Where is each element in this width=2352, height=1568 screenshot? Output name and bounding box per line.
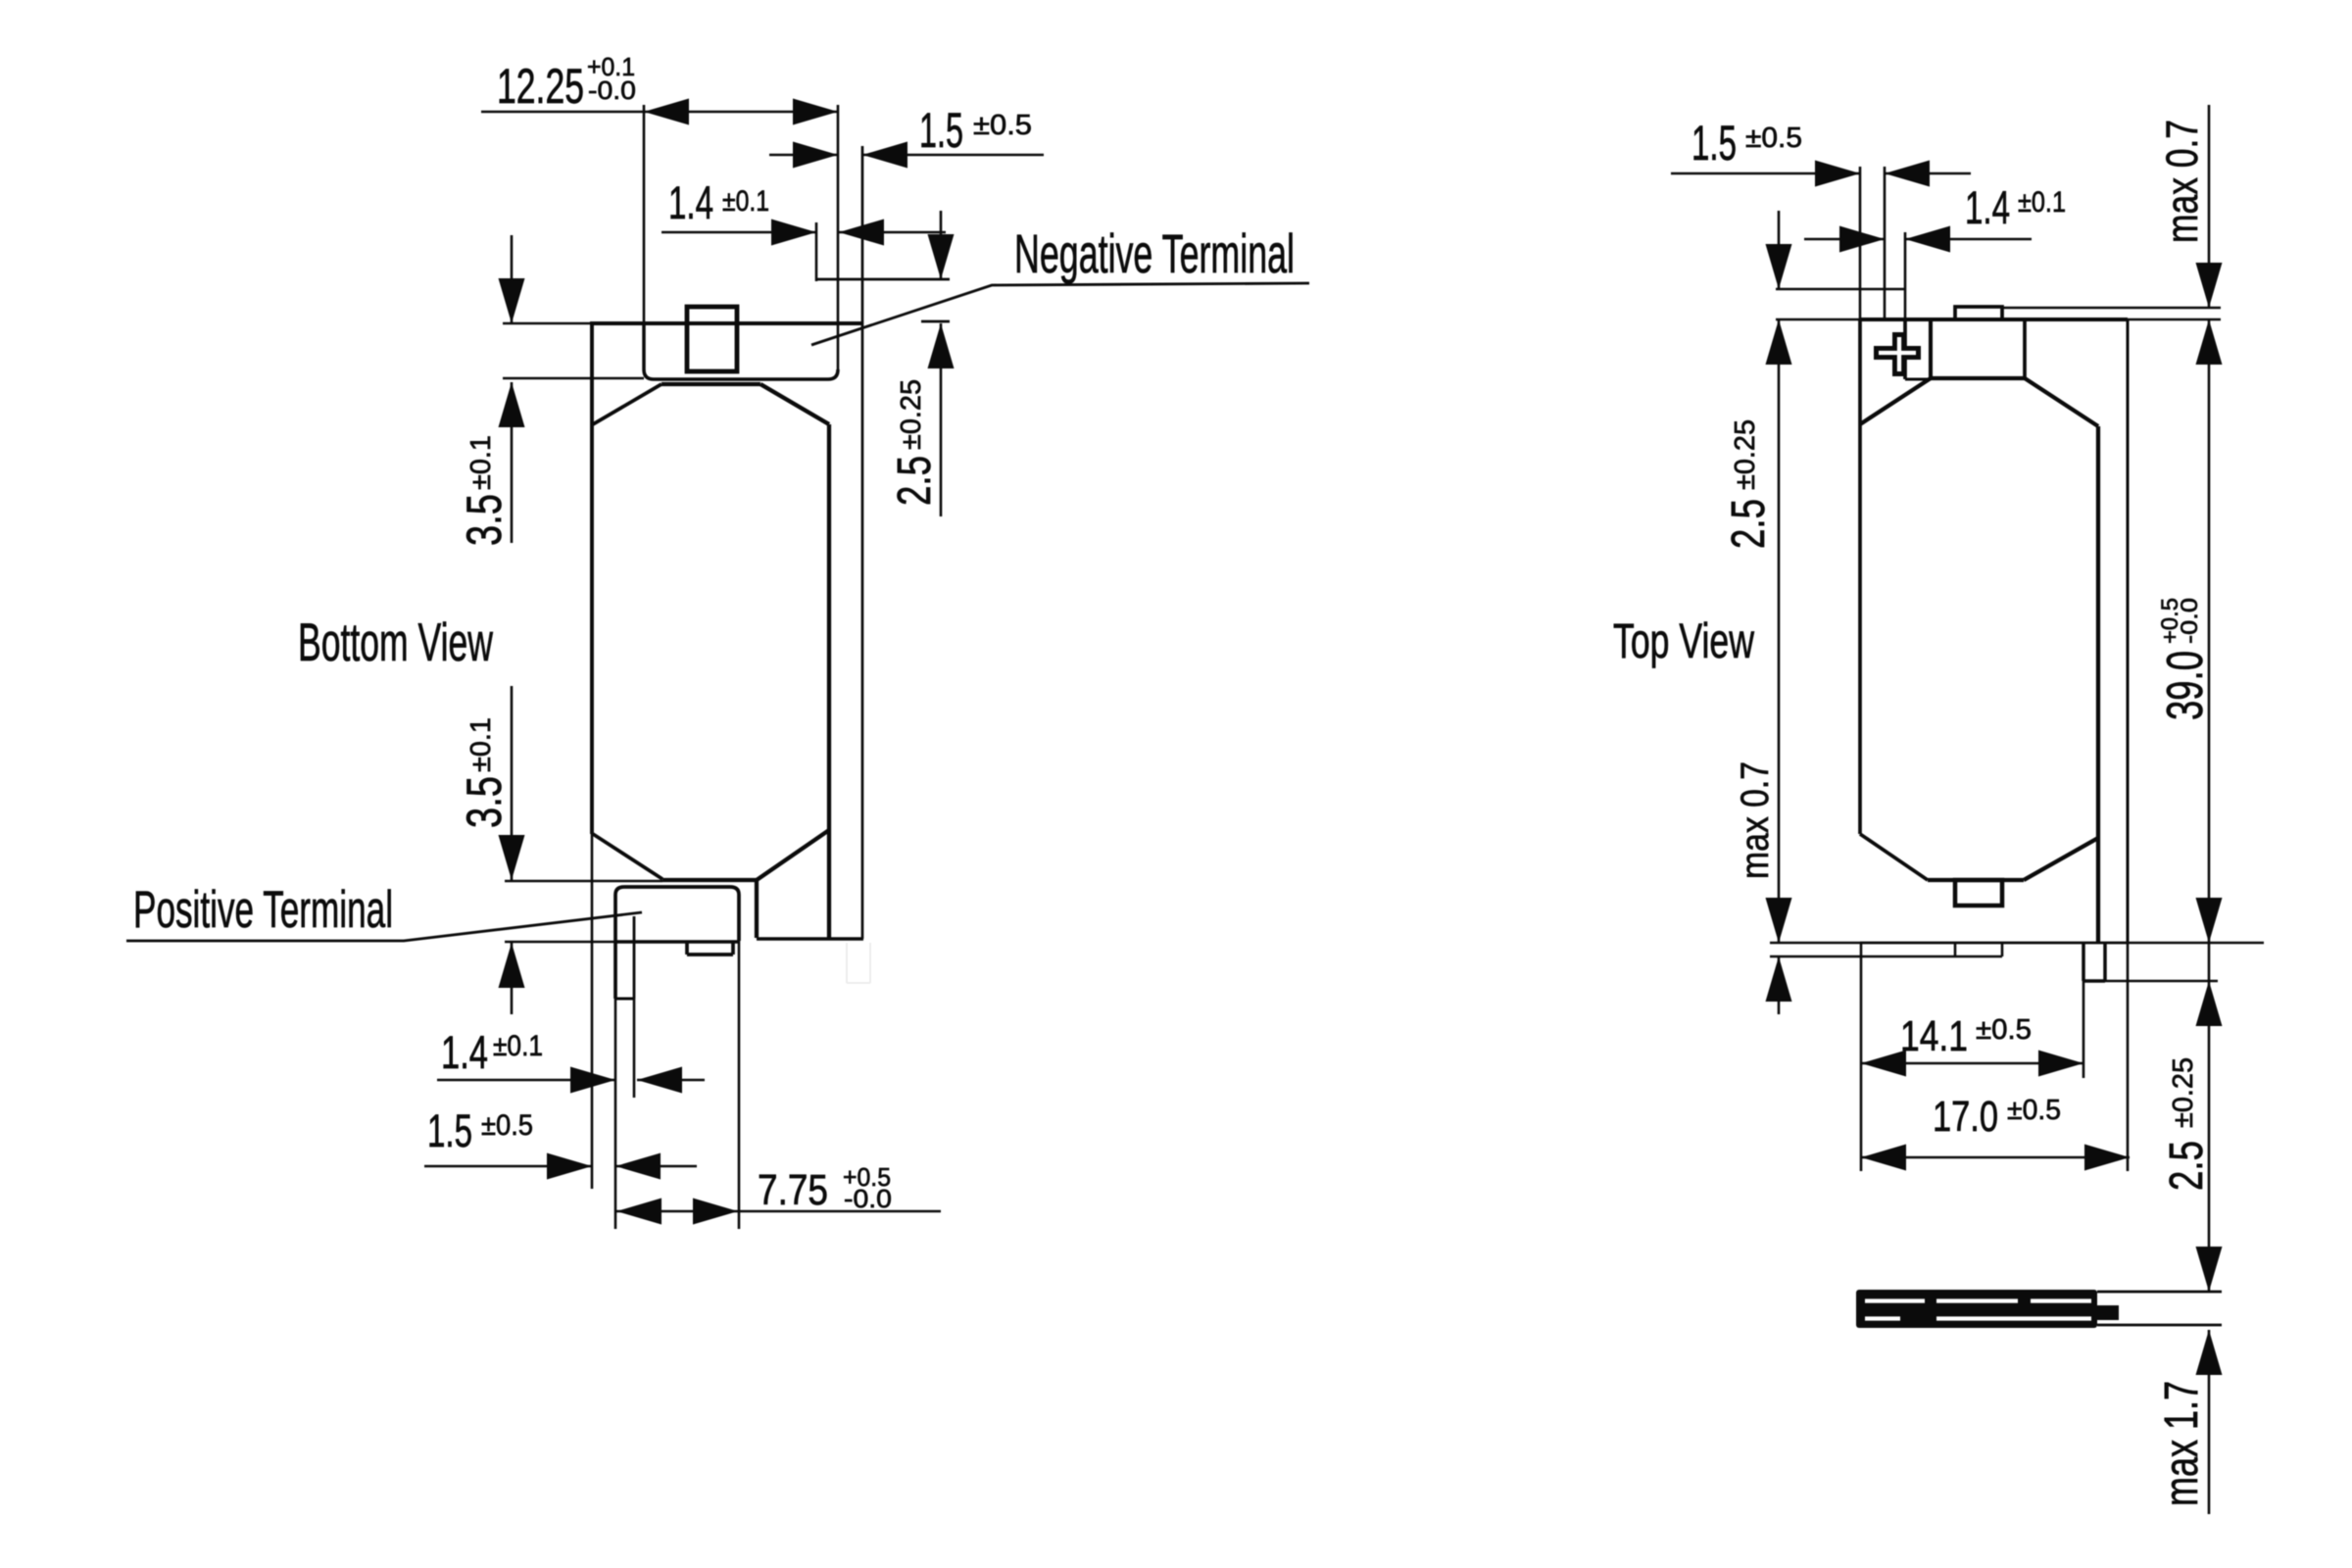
svg-text:max 0.7: max 0.7 xyxy=(1734,761,1777,879)
top edge right tick xyxy=(921,320,950,323)
17.0 arrows xyxy=(1861,1145,1906,1171)
body top-right chamfer xyxy=(2025,378,2098,426)
body top edge xyxy=(1931,376,2025,380)
dim 1.5 bottom lines xyxy=(424,1165,697,1168)
battery top edge xyxy=(1860,318,2128,321)
top cap right edge xyxy=(837,105,840,369)
dim 17.0 line xyxy=(1861,1156,2130,1159)
1.4 top arrows xyxy=(771,220,816,246)
extension line x647 lower xyxy=(633,999,636,1098)
2.5 left arrows xyxy=(928,234,955,279)
extension top edge right xyxy=(2128,318,2221,321)
svg-text:14.1: 14.1 xyxy=(1900,1012,1968,1060)
svg-text:1.4: 1.4 xyxy=(1965,181,2010,233)
svg-text:±0.1: ±0.1 xyxy=(722,185,769,218)
svg-text:2.5: 2.5 xyxy=(1723,499,1775,549)
extension top edge left xyxy=(1776,318,1860,321)
svg-text:max 1.7: max 1.7 xyxy=(2156,1381,2208,1506)
body bottom-left chamfer xyxy=(1860,834,1928,880)
1.4 bottom arrows xyxy=(570,1067,615,1094)
max0.7 left arrows xyxy=(1766,898,1792,943)
extension line x754 lower xyxy=(738,941,741,1229)
bottom right notch xyxy=(2083,943,2105,981)
1.5 right arrows xyxy=(1815,161,1860,187)
extension tab bottom left xyxy=(1770,955,1955,958)
bottom cap bottom edge xyxy=(615,940,739,944)
extension x1944 upper xyxy=(1904,232,1907,319)
body bottom-right chamfer xyxy=(2024,838,2098,880)
bottom inner tab xyxy=(1955,880,2002,906)
svg-text:±0.5: ±0.5 xyxy=(481,1109,533,1142)
body bottom edge xyxy=(662,878,757,882)
cap slot right line xyxy=(1929,319,1933,379)
svg-text:Negative Terminal: Negative Terminal xyxy=(1014,222,1295,284)
top cap bottom edge xyxy=(654,369,838,379)
extension x1899 lower xyxy=(1860,943,1863,1171)
dim 12.25 line xyxy=(481,111,838,114)
svg-text:±0.1: ±0.1 xyxy=(465,717,497,772)
12.25 arrows xyxy=(644,99,689,125)
svg-text:39.0: 39.0 xyxy=(2157,651,2214,720)
svg-text:-0.0: -0.0 xyxy=(588,75,636,105)
3.5 top arrows xyxy=(499,278,525,323)
39.0 arrows xyxy=(2196,319,2223,365)
positive tab bottom edge xyxy=(615,998,634,1001)
svg-text:±0.5: ±0.5 xyxy=(2007,1095,2061,1126)
dim 39.0 / 2.5 / max1.7 shared line xyxy=(2208,319,2211,1514)
cap right step xyxy=(2023,319,2027,378)
svg-text:-0.0: -0.0 xyxy=(844,1184,892,1213)
side view white separators xyxy=(1865,1301,2091,1319)
bottom cap right step xyxy=(755,880,759,938)
svg-text:±0.25: ±0.25 xyxy=(2168,1057,2199,1128)
svg-text:Positive Terminal: Positive Terminal xyxy=(133,881,393,939)
dim 14.1 line xyxy=(1861,1062,2083,1065)
1.5 top arrows xyxy=(793,142,838,169)
body bottom-left chamfer xyxy=(593,834,662,879)
extension x1898 upper xyxy=(1859,167,1862,319)
battery left edge xyxy=(590,323,594,834)
leader positive terminal xyxy=(126,912,642,941)
battery left edge xyxy=(1858,319,1862,834)
cap slot bottom xyxy=(1905,378,1931,381)
svg-text:±0.1: ±0.1 xyxy=(493,1030,543,1062)
svg-text:1.5: 1.5 xyxy=(1691,116,1737,171)
positive tab right edge xyxy=(633,916,636,999)
extension bottom edge xyxy=(1770,942,2264,945)
extension tab line right xyxy=(2002,307,2221,310)
svg-text:2.5: 2.5 xyxy=(2161,1141,2213,1191)
dim max0.7 top-right line xyxy=(2208,105,2211,308)
2.5 top-left arrows xyxy=(1766,244,1792,289)
svg-text:±0.25: ±0.25 xyxy=(1730,419,1761,490)
body top-left chamfer xyxy=(593,384,661,424)
svg-text:Top View: Top View xyxy=(1613,613,1755,668)
dim 3.5 bottom line xyxy=(511,686,514,1014)
body bottom-right chamfer xyxy=(757,830,829,880)
svg-text:1.5: 1.5 xyxy=(919,103,963,158)
extension line cap bottom edge left xyxy=(505,941,615,944)
svg-text:1.4: 1.4 xyxy=(668,176,713,228)
svg-text:12.25: 12.25 xyxy=(497,59,584,114)
side view body xyxy=(1856,1290,2097,1328)
side view bottom ext xyxy=(2097,1324,2222,1327)
extension x1923 upper xyxy=(1884,167,1886,319)
bottom small tab xyxy=(687,942,733,955)
body right edge xyxy=(827,424,831,939)
ghost tab bottom right xyxy=(847,943,870,983)
top cap left step xyxy=(644,323,654,379)
extension notch bottom right xyxy=(2105,980,2218,983)
svg-text:3.5: 3.5 xyxy=(457,494,512,546)
svg-text:3.5: 3.5 xyxy=(457,776,512,828)
side strip top edge xyxy=(816,278,950,281)
extension line body bottom left xyxy=(505,880,662,883)
svg-text:±0.1: ±0.1 xyxy=(465,435,497,490)
side view top ext xyxy=(2097,1291,2222,1294)
svg-text:±0.25: ±0.25 xyxy=(896,379,927,450)
dim 2.5 left line xyxy=(940,211,943,516)
bottom face tab xyxy=(1955,943,2002,956)
outer right edge xyxy=(2127,319,2130,943)
bottom closing edge xyxy=(757,937,863,941)
cap slot left line xyxy=(1903,319,1907,379)
svg-text:±0.1: ±0.1 xyxy=(2018,186,2066,219)
svg-text:max 0.7: max 0.7 xyxy=(2157,120,2207,243)
svg-text:2.5: 2.5 xyxy=(889,456,941,506)
svg-text:±0.5: ±0.5 xyxy=(973,110,1032,141)
side strip right edge xyxy=(861,146,864,939)
battery top edge xyxy=(590,321,862,325)
1.4 right arrows xyxy=(1839,226,1885,253)
extension line x628 lower xyxy=(614,999,617,1229)
body right edge xyxy=(2096,426,2100,943)
plus symbol xyxy=(1874,332,1921,376)
body top-left chamfer xyxy=(1860,378,1931,424)
dim 7.75 line xyxy=(615,1210,941,1213)
negative terminal tab xyxy=(687,307,737,371)
svg-text:±0.5: ±0.5 xyxy=(1976,1014,2032,1046)
svg-text:-0.0: -0.0 xyxy=(2177,598,2203,644)
dim 1.4 right lines xyxy=(1804,238,2032,241)
dim 3.5 top line xyxy=(511,235,514,543)
leader negative terminal xyxy=(811,283,1309,345)
extension line x833 upper xyxy=(815,222,818,281)
extension line top-left xyxy=(503,322,590,325)
2.5 bottom-right arrow xyxy=(2196,981,2223,1026)
dim 1.5 top lines xyxy=(769,154,1044,157)
dim 1.5 right lines xyxy=(1671,172,1971,175)
dim 1.4 top lines xyxy=(661,231,946,234)
1.5 bottom arrows xyxy=(547,1153,592,1180)
7.75 arrows xyxy=(616,1199,661,1225)
body bottom edge xyxy=(1928,878,2024,882)
negative tab top view xyxy=(1955,307,2002,319)
svg-text:7.75: 7.75 xyxy=(758,1166,828,1214)
extension line x604 lower xyxy=(591,834,594,1189)
svg-text:±0.5: ±0.5 xyxy=(1745,122,1802,154)
svg-text:17.0: 17.0 xyxy=(1933,1093,1998,1141)
body top-right chamfer xyxy=(760,384,829,424)
svg-text:Bottom View: Bottom View xyxy=(298,612,493,672)
extension x2125 lower xyxy=(2082,981,2085,1078)
extension line x657 upper xyxy=(643,105,646,323)
max0.7 right arrows xyxy=(2196,263,2223,308)
battery bottom edge xyxy=(1860,942,2128,945)
side view tab xyxy=(2095,1305,2119,1320)
max1.7 arrows xyxy=(2196,1247,2223,1292)
14.1 arrows xyxy=(1861,1051,1906,1077)
extension line cap bottom left xyxy=(503,377,644,380)
extension strip top line xyxy=(1776,288,1905,291)
dim 2.5 top-left line xyxy=(1778,211,1781,1014)
dim 1.4 bottom lines xyxy=(437,1079,705,1082)
body top edge xyxy=(661,382,760,386)
svg-text:1.4: 1.4 xyxy=(441,1026,488,1078)
bottom cap outline xyxy=(615,887,739,999)
side view black fills xyxy=(1856,1290,2119,1328)
svg-text:1.5: 1.5 xyxy=(427,1104,472,1156)
3.5 bottom arrows xyxy=(499,835,525,880)
extension x2171 lower xyxy=(2127,943,2130,1171)
